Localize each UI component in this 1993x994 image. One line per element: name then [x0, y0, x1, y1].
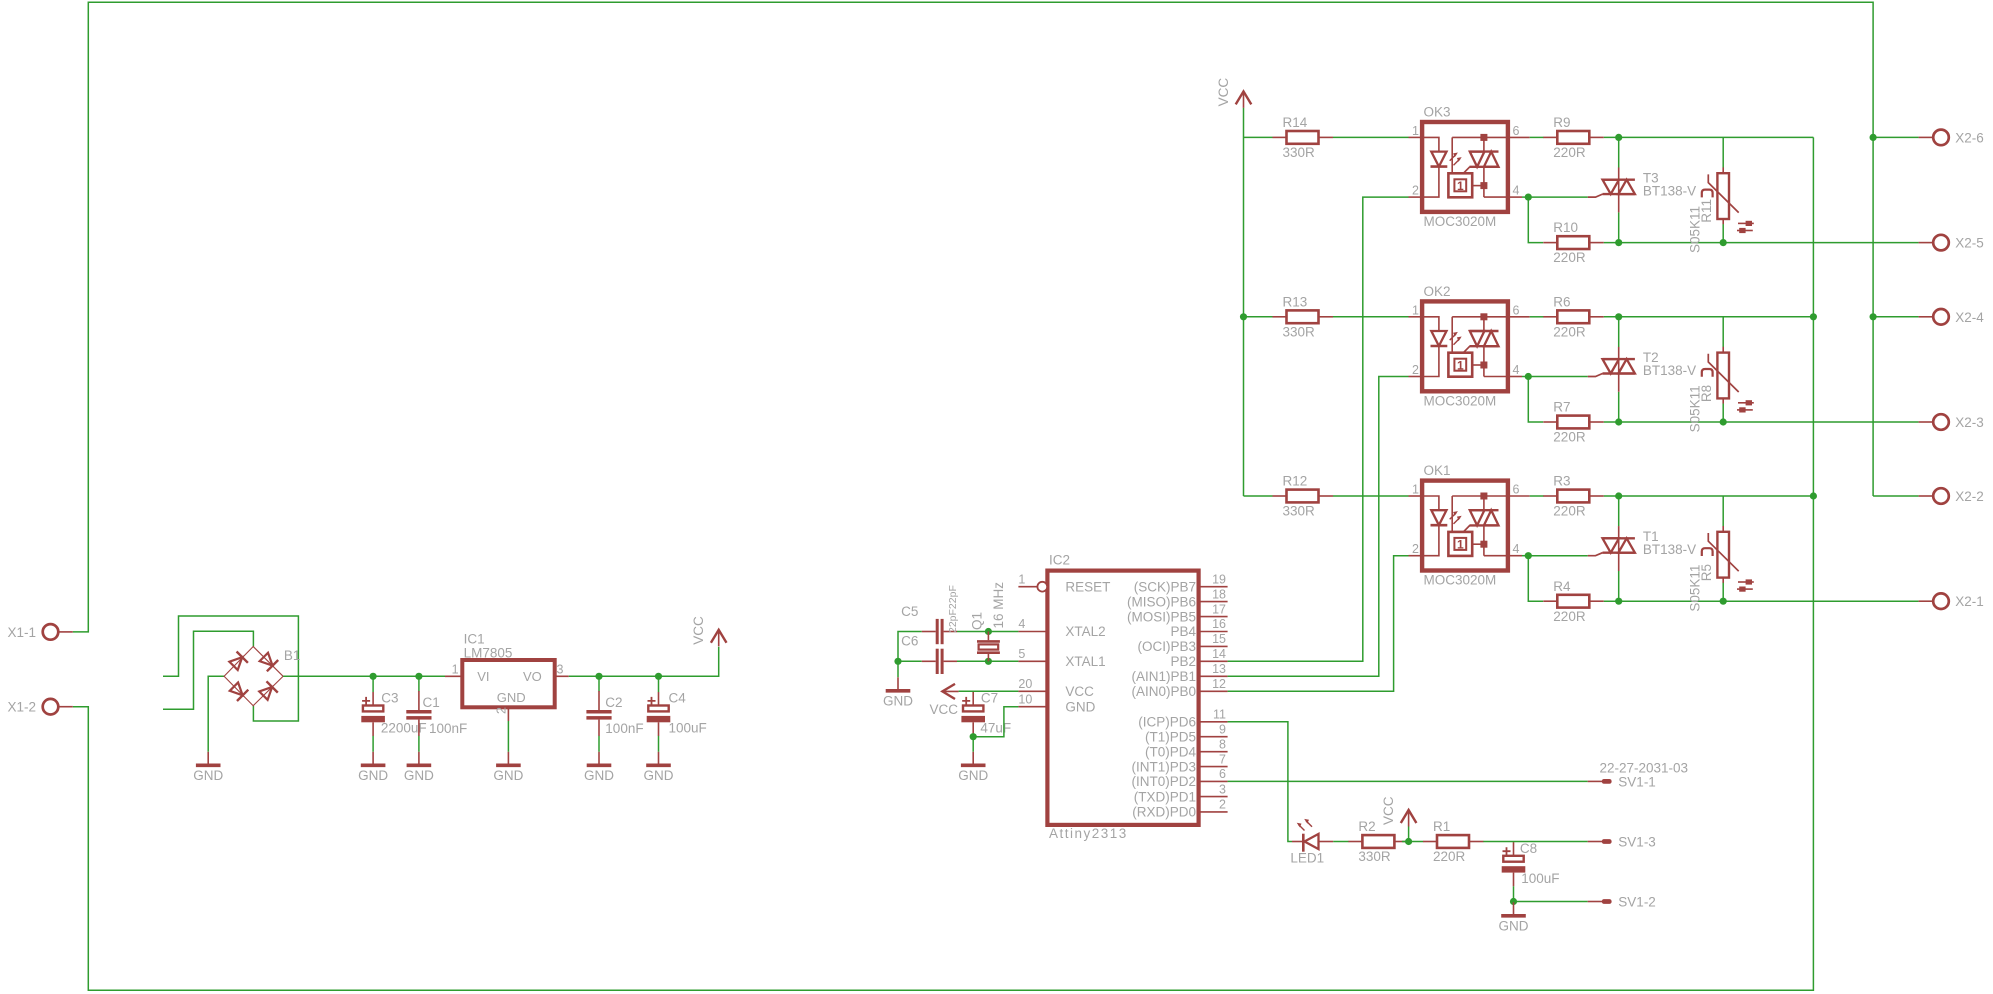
junction varistor R11 bottom [1720, 239, 1727, 246]
VCC symbol above R1 [1381, 796, 1416, 826]
wire bridge minus to ground [208, 676, 224, 752]
svg-text:X1-2: X1-2 [7, 700, 36, 715]
wire OK1 pin2 to IC2 [1228, 556, 1409, 692]
svg-text:R1: R1 [1433, 819, 1450, 834]
wire PD6 to LED1 [1228, 722, 1292, 842]
capacitor C6 22pF [901, 634, 957, 674]
wire IC1 VO to VCC [569, 647, 719, 677]
wire R6 to N bus [1604, 316, 1814, 318]
svg-text:R6: R6 [1553, 294, 1570, 309]
svg-text:(T1)PD5: (T1)PD5 [1145, 729, 1196, 744]
junction triac T2 top [1615, 313, 1622, 320]
svg-text:R2: R2 [1358, 819, 1375, 834]
wire pin4 to T1 gate [1528, 555, 1588, 557]
svg-text:RESET: RESET [1065, 579, 1110, 594]
svg-text:19: 19 [1212, 572, 1226, 586]
svg-text:C1: C1 [423, 695, 440, 710]
svg-text:XTAL2: XTAL2 [1065, 624, 1105, 639]
svg-text:8: 8 [1219, 737, 1226, 751]
svg-text:VCC: VCC [1216, 78, 1231, 107]
svg-text:X2-6: X2-6 [1955, 130, 1984, 145]
wire AC input B to bridge top vertex [163, 631, 253, 709]
resistor R14 330R [1273, 115, 1334, 160]
svg-text:R7: R7 [1553, 400, 1570, 415]
svg-text:4: 4 [1513, 542, 1520, 556]
svg-text:9: 9 [1219, 722, 1226, 736]
svg-text:R10: R10 [1553, 220, 1578, 235]
crystal Q1 16 MHz [970, 582, 1006, 662]
voltage regulator IC1 LM7805 [445, 631, 569, 721]
svg-text:XTAL1: XTAL1 [1065, 654, 1105, 669]
svg-text:SV1-2: SV1-2 [1618, 895, 1656, 910]
varistor R8 S05K11 [1687, 347, 1753, 433]
svg-text:OK2: OK2 [1424, 284, 1451, 299]
wire T3 top lead [1618, 137, 1620, 167]
wire R7 to X2-3 [1604, 421, 1919, 423]
svg-text:1: 1 [1457, 179, 1464, 193]
svg-text:MOC3020M: MOC3020M [1424, 393, 1497, 408]
wire T1 top lead [1618, 496, 1620, 526]
capacitor C3 [361, 691, 426, 736]
svg-text:MOC3020M: MOC3020M [1424, 214, 1497, 229]
svg-text:VCC: VCC [691, 616, 706, 645]
diode B1 top-left [228, 652, 248, 672]
wire varistor R8 bottom lead [1722, 404, 1724, 422]
junction OK1 pin4 [1525, 552, 1532, 559]
svg-text:R5: R5 [1699, 564, 1714, 581]
wire AC input A to bridge bottom vertex [163, 616, 298, 721]
svg-text:GND: GND [958, 768, 988, 783]
svg-text:1: 1 [1412, 483, 1419, 497]
connector pad X2-2 [1919, 488, 1984, 504]
svg-text:SV1-3: SV1-3 [1618, 835, 1656, 850]
svg-text:2200uF: 2200uF [381, 721, 427, 736]
resistor R3 220R [1543, 474, 1604, 519]
svg-text:(RXD)PD0: (RXD)PD0 [1132, 805, 1196, 820]
wire R10 to X2-5 [1604, 242, 1919, 244]
wire R9 to N bus [1604, 136, 1814, 138]
wire C4 to ground [658, 736, 660, 752]
svg-text:47uF: 47uF [980, 721, 1011, 736]
svg-text:1: 1 [1457, 538, 1464, 552]
wire R12 to OK1 pin1 [1333, 495, 1409, 497]
wire to SV1-2 [1514, 901, 1588, 903]
svg-text:220R: 220R [1433, 849, 1466, 864]
capacitor C7 [961, 691, 1011, 736]
svg-text:330R: 330R [1283, 324, 1316, 339]
wire R14 to OK3 pin1 [1333, 136, 1409, 138]
svg-text:VCC: VCC [1381, 796, 1396, 825]
wire XTAL1 net [957, 660, 1018, 662]
svg-text:R13: R13 [1283, 294, 1308, 309]
svg-text:GND: GND [584, 768, 614, 783]
svg-text:GND: GND [193, 768, 223, 783]
svg-text:(T0)PD4: (T0)PD4 [1145, 744, 1196, 759]
svg-text:GND: GND [1065, 699, 1095, 714]
wire caps left to ground [898, 632, 922, 678]
junction triac T3 bottom [1615, 239, 1622, 246]
wire OK1 pin6 to R3 [1530, 495, 1544, 497]
resistor R9 220R [1543, 115, 1604, 160]
svg-text:GND: GND [404, 768, 434, 783]
wire OK2 pin2 to IC2 [1228, 377, 1409, 677]
junction L bus X2-4 [1870, 313, 1877, 320]
ground below bridge [193, 752, 223, 783]
wire varistor R11 bottom lead [1722, 224, 1724, 242]
junction C3 top [370, 673, 377, 680]
connector pad X1-1 [7, 624, 72, 640]
svg-text:220R: 220R [1553, 430, 1586, 445]
svg-text:1: 1 [1457, 358, 1464, 372]
diode B1 top-right [258, 651, 278, 671]
wire pin4 to T2 gate [1528, 376, 1588, 378]
wire C7 bottom [972, 736, 974, 752]
junction C2 top [595, 673, 602, 680]
wire VCC bus vertical [1243, 108, 1245, 496]
svg-text:B1: B1 [284, 648, 301, 663]
capacitor C2 [586, 691, 643, 736]
junction VCC at R2 R1 [1405, 838, 1412, 845]
wire R1 to SV1-3 [1483, 841, 1587, 843]
ground below C8 [1499, 902, 1529, 933]
connector pad X2-6 [1919, 130, 1984, 146]
svg-text:C5: C5 [901, 604, 918, 619]
wire to C2 [598, 676, 600, 691]
junction triac T1 top [1615, 492, 1622, 499]
wire pin 10 GND net [973, 707, 1018, 737]
svg-text:3: 3 [557, 662, 564, 676]
ground below C2 [584, 752, 614, 783]
wire T3 bottom lead [1618, 212, 1620, 242]
svg-text:X2-2: X2-2 [1955, 489, 1984, 504]
svg-text:2: 2 [1412, 184, 1419, 198]
optocoupler OK3 MOC3020M [1409, 105, 1530, 230]
svg-text:3: 3 [1219, 782, 1226, 796]
svg-text:X2-1: X2-1 [1955, 594, 1984, 609]
svg-text:X2-4: X2-4 [1955, 310, 1984, 325]
capacitor C5 22pF [901, 604, 957, 644]
capacitor C8 [1502, 841, 1560, 886]
diode B1 bottom-right [258, 681, 278, 701]
wire R2 to R1 [1402, 841, 1423, 843]
wire C8 tap [1513, 841, 1515, 844]
svg-text:C2: C2 [605, 695, 622, 710]
svg-text:VCC: VCC [1065, 684, 1094, 699]
svg-text:GND: GND [493, 768, 523, 783]
svg-text:(ICP)PD6: (ICP)PD6 [1138, 715, 1196, 730]
VCC symbol top of channel bus [1216, 78, 1251, 108]
wire R13 to OK2 pin1 [1333, 316, 1409, 318]
wire VCC to R14 [1244, 136, 1273, 138]
VCC symbol near IC1 [691, 616, 726, 646]
svg-text:OK3: OK3 [1424, 105, 1451, 120]
svg-text:X1-1: X1-1 [7, 625, 36, 640]
svg-text:OK1: OK1 [1424, 463, 1451, 478]
resistor R2 330R [1348, 819, 1409, 864]
svg-text:20: 20 [1018, 677, 1032, 691]
wire N net: X1-2 down along bottom border up right bus [73, 137, 1814, 990]
junction OK2 pin4 [1525, 373, 1532, 380]
svg-text:X2-3: X2-3 [1955, 415, 1984, 430]
svg-text:18: 18 [1212, 587, 1226, 601]
svg-text:16 MHz: 16 MHz [991, 582, 1006, 629]
svg-text:C3: C3 [381, 691, 398, 706]
capacitor C4 [647, 691, 707, 736]
connector pin SV1-2 [1588, 895, 1656, 910]
connector pad X2-5 [1919, 235, 1984, 251]
svg-text:R12: R12 [1283, 474, 1308, 489]
wire R4 to X2-1 [1604, 600, 1919, 602]
svg-text:(MISO)PB6: (MISO)PB6 [1127, 594, 1196, 609]
svg-text:6: 6 [1219, 767, 1226, 781]
svg-text:(INT1)PD3: (INT1)PD3 [1131, 759, 1196, 774]
wire VCC to R12 [1244, 495, 1273, 497]
svg-text:Q1: Q1 [970, 612, 985, 630]
svg-text:100uF: 100uF [669, 721, 707, 736]
wire VCC arrow down [1408, 827, 1410, 842]
svg-text:10: 10 [1018, 692, 1032, 706]
svg-text:(AIN1)PB1: (AIN1)PB1 [1131, 669, 1196, 684]
resistor R1 220R [1423, 819, 1484, 864]
svg-text:C7: C7 [981, 691, 998, 706]
junction C4 top [655, 673, 662, 680]
svg-text:6: 6 [1513, 483, 1520, 497]
svg-text:17: 17 [1212, 602, 1226, 616]
wire C1 to ground [418, 736, 420, 752]
varistor R5 S05K11 [1687, 526, 1753, 612]
svg-text:VCC: VCC [930, 702, 959, 717]
svg-text:13: 13 [1212, 662, 1226, 676]
svg-text:C4: C4 [669, 691, 687, 706]
junction varistor R8 bottom [1720, 418, 1727, 425]
svg-text:GND: GND [358, 768, 388, 783]
svg-text:VO: VO [523, 669, 542, 684]
svg-text:GND: GND [644, 768, 674, 783]
VCC symbol left-pointing near IC2 [930, 684, 959, 717]
optocoupler OK2 MOC3020M [1409, 284, 1530, 409]
optocoupler OK1 MOC3020M [1409, 463, 1530, 587]
svg-text:Attiny2313: Attiny2313 [1049, 826, 1128, 841]
svg-text:220R: 220R [1553, 324, 1586, 339]
junction OK3 pin4 [1525, 194, 1532, 201]
wire OK2 pin4 [1522, 376, 1528, 378]
svg-text:15: 15 [1212, 632, 1226, 646]
wire pin4 down to R10 [1528, 197, 1543, 243]
svg-text:BT138-V: BT138-V [1643, 363, 1696, 378]
svg-text:5: 5 [1018, 647, 1025, 661]
svg-text:C8: C8 [1520, 841, 1537, 856]
svg-text:11: 11 [1213, 708, 1226, 722]
svg-text:GND: GND [497, 690, 526, 705]
svg-text:(MOSI)PB5: (MOSI)PB5 [1127, 609, 1196, 624]
svg-text:(SCK)PB7: (SCK)PB7 [1134, 579, 1196, 594]
LED LED1 [1290, 819, 1333, 866]
wire varistor R5 bottom lead [1722, 583, 1724, 601]
svg-text:7: 7 [1219, 752, 1226, 766]
svg-text:4: 4 [1018, 617, 1025, 631]
wire VCC to pin 20 [959, 690, 1019, 692]
junction C1 top [415, 673, 422, 680]
triac T3 BT138-V [1588, 168, 1696, 213]
diode B1 bottom-left [228, 681, 248, 701]
triac T2 BT138-V [1588, 347, 1696, 392]
svg-text:PB4: PB4 [1170, 624, 1196, 639]
svg-text:100uF: 100uF [1521, 871, 1559, 886]
ground below C4 [644, 752, 674, 783]
wire L bus to X2-6 [1873, 136, 1919, 138]
svg-text:220R: 220R [1553, 250, 1586, 265]
svg-text:BT138-V: BT138-V [1643, 184, 1696, 199]
svg-text:BT138-V: BT138-V [1643, 542, 1696, 557]
connector pad X1-2 [7, 699, 72, 715]
wire varistor R11 top lead [1722, 137, 1724, 167]
wire L net: X1-1 up over top border to right bus [73, 2, 1873, 632]
svg-text:4: 4 [1513, 184, 1520, 198]
ground below C3 [358, 752, 388, 783]
junction triac T1 bottom [1615, 598, 1622, 605]
wire XTAL2 net [957, 631, 1018, 633]
junction VCC bus R13 [1240, 313, 1247, 320]
svg-text:R4: R4 [1553, 579, 1571, 594]
svg-text:X2-5: X2-5 [1955, 236, 1984, 251]
junction N bus row X2-4 [1810, 313, 1817, 320]
wire OK1 pin4 [1522, 555, 1528, 557]
connector pad X2-4 [1919, 309, 1985, 325]
svg-text:(INT0)PD2: (INT0)PD2 [1131, 774, 1196, 789]
svg-text:2: 2 [494, 707, 508, 714]
varistor R11 S05K11 [1687, 167, 1753, 253]
junction L bus X2-6 [1870, 134, 1877, 141]
junction crystal top [985, 628, 992, 635]
svg-text:MOC3020M: MOC3020M [1424, 573, 1497, 588]
wire T1 bottom lead [1618, 571, 1620, 601]
ground below C1 [404, 752, 434, 783]
svg-text:1: 1 [1412, 124, 1419, 138]
junction C7 bottom [970, 733, 977, 740]
svg-text:220R: 220R [1553, 609, 1586, 624]
svg-text:330R: 330R [1358, 849, 1391, 864]
svg-text:22-27-2031-03: 22-27-2031-03 [1600, 761, 1689, 776]
junction crystal bottom [985, 658, 992, 665]
svg-text:1: 1 [452, 662, 459, 676]
wire C3 to ground [372, 736, 374, 752]
connector pin SV1-3 [1588, 835, 1656, 850]
svg-text:22pF22pF: 22pF22pF [947, 585, 959, 633]
svg-text:100nF: 100nF [429, 721, 467, 736]
wire VCC to R13 [1244, 316, 1273, 318]
svg-text:14: 14 [1212, 647, 1226, 661]
junction N bus row X2-2 [1810, 492, 1817, 499]
connector pin SV1-1 [1588, 774, 1656, 789]
svg-text:LM7805: LM7805 [464, 646, 513, 661]
wire C2 to ground [598, 736, 600, 752]
svg-text:6: 6 [1513, 303, 1520, 317]
svg-text:GND: GND [883, 693, 913, 708]
svg-text:(TXD)PD1: (TXD)PD1 [1134, 789, 1196, 804]
wire C7 tap [972, 690, 974, 693]
svg-text:100nF: 100nF [605, 721, 643, 736]
wire L bus corner to X2-2 [1873, 495, 1919, 497]
svg-text:R11: R11 [1699, 199, 1714, 223]
svg-text:2: 2 [1219, 798, 1226, 812]
wire to C4 [658, 676, 660, 692]
junction C6 left [894, 658, 901, 665]
wire LED1 to R2 [1333, 841, 1348, 843]
svg-text:(OCI)PB3: (OCI)PB3 [1137, 639, 1196, 654]
svg-text:330R: 330R [1283, 504, 1316, 519]
resistor R10 220R [1543, 220, 1604, 265]
junction triac T2 bottom [1615, 418, 1622, 425]
wire to C1 [418, 676, 420, 691]
wire PD2 to SV1-1 [1228, 780, 1588, 782]
resistor R7 220R [1543, 400, 1604, 445]
svg-text:12: 12 [1212, 677, 1226, 691]
wire to C3 [372, 676, 374, 692]
bridge rectifier B1 [224, 647, 283, 706]
resistor R6 220R [1543, 294, 1604, 339]
wire pin4 down to R4 [1528, 556, 1543, 602]
connector pad X2-1 [1919, 593, 1984, 609]
ground below IC1 [493, 752, 523, 783]
wire R3 to N bus [1604, 495, 1814, 497]
wire IC1 GND pin down [507, 721, 509, 752]
wire OK2 pin6 to R6 [1530, 316, 1544, 318]
resistor R12 330R [1273, 474, 1334, 519]
resistor R13 330R [1273, 294, 1334, 339]
wire C8 bottom [1513, 886, 1515, 901]
svg-text:GND: GND [1499, 918, 1529, 933]
svg-text:1: 1 [1412, 303, 1419, 317]
wire OK3 pin4 [1522, 196, 1528, 198]
svg-text:IC2: IC2 [1049, 553, 1070, 568]
ground below crystal caps [883, 677, 913, 708]
wire L bus to X2-4 [1873, 316, 1919, 318]
svg-text:LED1: LED1 [1290, 851, 1324, 866]
wire C6 left [898, 660, 922, 662]
svg-text:C6: C6 [901, 634, 918, 649]
wire pin4 to T3 gate [1528, 196, 1588, 198]
svg-text:PB2: PB2 [1170, 654, 1196, 669]
junction varistor R5 bottom [1720, 598, 1727, 605]
wire T2 top lead [1618, 317, 1620, 347]
svg-text:220R: 220R [1553, 145, 1586, 160]
svg-text:1: 1 [1018, 572, 1025, 586]
wire OK3 pin6 to R9 [1530, 136, 1544, 138]
svg-text:IC1: IC1 [464, 631, 485, 646]
svg-text:R8: R8 [1699, 385, 1714, 402]
wire bridge plus to IC1 VI [283, 675, 445, 677]
svg-text:VI: VI [477, 669, 489, 684]
svg-text:R3: R3 [1553, 474, 1570, 489]
wire pin4 down to R7 [1528, 377, 1543, 423]
svg-text:4: 4 [1513, 363, 1520, 377]
microcontroller IC2 Attiny2313 [1018, 553, 1227, 842]
triac T1 BT138-V [1588, 526, 1696, 571]
capacitor C1 [406, 691, 467, 736]
junction triac T3 top [1615, 134, 1622, 141]
svg-text:220R: 220R [1553, 504, 1586, 519]
svg-text:16: 16 [1212, 617, 1226, 631]
svg-text:R14: R14 [1283, 115, 1308, 130]
connector pad X2-3 [1919, 414, 1984, 430]
svg-text:(AIN0)PB0: (AIN0)PB0 [1131, 684, 1196, 699]
svg-text:R9: R9 [1553, 115, 1570, 130]
wire varistor R8 top lead [1722, 317, 1724, 347]
svg-text:2: 2 [1412, 363, 1419, 377]
svg-text:6: 6 [1513, 124, 1520, 138]
svg-text:330R: 330R [1283, 145, 1316, 160]
junction C8 bottom [1510, 898, 1517, 905]
